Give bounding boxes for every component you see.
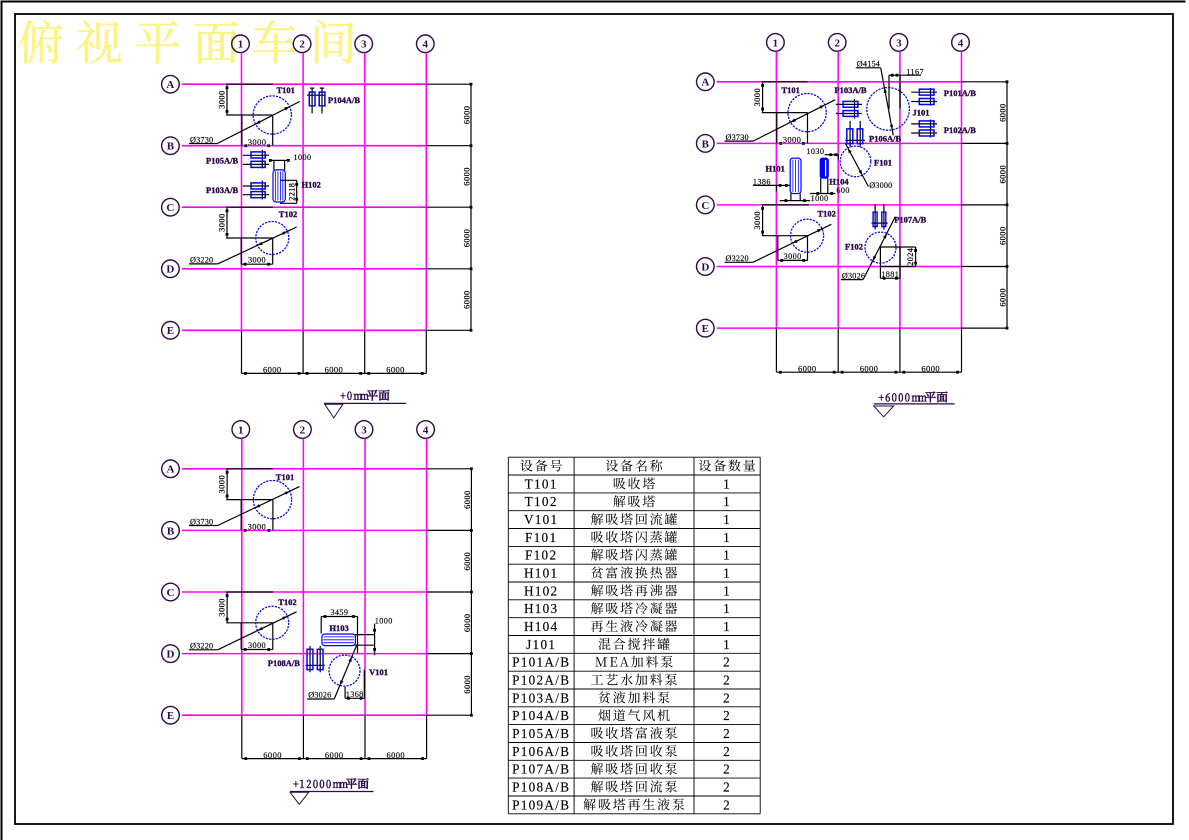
- grid row line D (plan +12000mm): [182, 653, 427, 655]
- bottom dim 3000 (T102 plan +0mm): [241, 256, 273, 266]
- grid row bubble C (plan +12000mm): [162, 583, 180, 601]
- svg-text:1: 1: [723, 512, 731, 527]
- grid row bubble A (plan +12000mm): [162, 460, 180, 478]
- heat exchanger H101 (plan +6000mm): [790, 158, 801, 193]
- svg-text:E: E: [167, 710, 174, 722]
- svg-text:C: C: [167, 587, 175, 599]
- flash tank F101 circle (plan +6000mm): [840, 146, 871, 177]
- svg-text:H103: H103: [329, 623, 348, 633]
- plan title +0mm marker triangle: [325, 404, 343, 418]
- svg-text:1: 1: [238, 39, 244, 51]
- pump P105A/B symbol (plan +0mm): [243, 150, 269, 169]
- plot box (T101 plan +0mm): [242, 115, 273, 146]
- label P104A/B (plan +0mm): [328, 95, 360, 105]
- tower circle T101 (T101 plan +12000mm): [253, 480, 291, 518]
- dimension 1000 (plan +0mm): [269, 153, 312, 170]
- diameter label Ø4154 (plan +6000mm): [856, 60, 894, 136]
- svg-text:A: A: [166, 79, 174, 91]
- svg-text:600: 600: [836, 186, 849, 195]
- svg-text:D: D: [701, 261, 709, 273]
- grid row line A (plan +12000mm): [182, 468, 427, 470]
- svg-text:P108A/B: P108A/B: [268, 658, 300, 668]
- mixer tank J101 circle (plan +6000mm): [867, 88, 910, 131]
- svg-text:2: 2: [723, 744, 731, 759]
- reflux tank V101 circle (plan +12000mm): [329, 655, 360, 686]
- right dim text 6000 (plan +0mm) 2: [461, 167, 471, 186]
- svg-text:2: 2: [299, 39, 305, 51]
- vertical dim 3000 (T102 plan +6000mm): [752, 205, 764, 236]
- svg-text:B: B: [167, 141, 175, 153]
- svg-text:1: 1: [723, 476, 731, 491]
- grid row line D (plan +0mm): [182, 268, 426, 270]
- svg-text:2: 2: [723, 690, 731, 705]
- right dim text 6000 (plan +6000mm) 2: [997, 165, 1007, 184]
- grid row bubble E (plan +12000mm): [162, 706, 180, 724]
- svg-text:2: 2: [723, 655, 731, 670]
- grid row bubble B (plan +12000mm): [162, 522, 180, 540]
- bottom dimension chain (plan +6000mm): [776, 328, 961, 373]
- grid column bubble 2 (plan +6000mm): [828, 34, 846, 52]
- grid column line 2 (plan +0mm): [302, 53, 304, 331]
- diameter label Ø3220 (plan +12000mm): [189, 612, 297, 651]
- plan title +12000mm underline: [290, 791, 373, 793]
- grid row bubble B (plan +0mm): [162, 137, 180, 155]
- grid row line E (plan +6000mm): [717, 327, 962, 329]
- center horizontal line (T101 plan +6000mm): [762, 112, 808, 114]
- svg-text:3000: 3000: [216, 90, 226, 109]
- diameter label Ø3220 (plan +0mm): [189, 227, 297, 265]
- right dim text 6000 (plan +12000mm) 1: [462, 490, 472, 509]
- vertical dim 3000 (T101 plan +6000mm): [752, 82, 764, 113]
- svg-text:P101A/B: P101A/B: [512, 655, 570, 670]
- diameter label Ø3730 (T101 plan +0mm): [189, 102, 300, 145]
- svg-text:C: C: [166, 202, 174, 214]
- svg-text:6000: 6000: [921, 363, 940, 373]
- svg-text:2: 2: [723, 797, 731, 812]
- grid row bubble B (plan +6000mm): [697, 135, 715, 153]
- condenser H104 (plan +6000mm): [820, 158, 828, 178]
- svg-text:1: 1: [773, 37, 779, 49]
- svg-text:Ø3000: Ø3000: [869, 181, 892, 190]
- center horizontal line (T102 plan +6000mm): [762, 235, 808, 237]
- grid row line C (plan +12000mm): [182, 591, 427, 593]
- plan title +0mm (text): [341, 390, 390, 401]
- label H102 (plan +0mm): [302, 179, 321, 189]
- svg-text:2: 2: [723, 779, 731, 794]
- grid column line 3 (plan +6000mm): [899, 51, 901, 328]
- svg-text:6000: 6000: [997, 288, 1007, 307]
- plot box (T102 plan +6000mm): [778, 236, 808, 261]
- grid column line 4 (plan +6000mm): [961, 51, 963, 328]
- svg-text:H104: H104: [829, 176, 849, 186]
- center horizontal line (T101 plan +0mm): [226, 114, 273, 116]
- diameter label Ø3026 (plan +6000mm): [841, 217, 895, 281]
- svg-text:P106A/B: P106A/B: [869, 134, 901, 144]
- svg-text:1: 1: [723, 548, 731, 563]
- center horizontal line (T102 plan +12000mm): [226, 622, 272, 624]
- label T101 (T101 plan +0mm): [277, 85, 295, 95]
- label V101 (plan +12000mm): [369, 667, 388, 677]
- pump P101A/B symbol (plan +6000mm): [911, 88, 937, 106]
- grid column bubble 2 (plan +12000mm): [294, 421, 312, 439]
- row C overlay (T102 plan +6000mm): [762, 204, 809, 206]
- dimension 2024 box (plan +6000mm): [880, 247, 917, 267]
- label P103A/B (plan +0mm): [206, 185, 238, 195]
- svg-text:6000: 6000: [461, 106, 471, 125]
- grid column bubble 1 (plan +6000mm): [767, 34, 785, 52]
- svg-text:H102: H102: [524, 583, 559, 598]
- grid column line 1 (plan +0mm): [241, 53, 243, 331]
- label P108A/B (plan +12000mm): [268, 658, 300, 668]
- bottom dim 3000 (T102 plan +12000mm): [241, 641, 273, 651]
- svg-text:1: 1: [723, 566, 731, 581]
- vertical dim 3000 (T101 plan +0mm): [216, 84, 228, 115]
- dimension 1000 (H103 plan +12000mm): [355, 616, 393, 655]
- dimension 1030 (plan +6000mm): [806, 147, 838, 159]
- grid row bubble C (plan +6000mm): [697, 196, 715, 214]
- tower circle T101 (T101 plan +0mm): [253, 96, 291, 134]
- tower circle T102 (plan +12000mm): [256, 606, 289, 639]
- right dimension line 6000 chain (plan +6000mm): [962, 80, 1009, 329]
- plot box (T102 plan +12000mm): [241, 623, 273, 650]
- svg-text:V101: V101: [524, 512, 559, 527]
- svg-text:B: B: [702, 138, 710, 150]
- label T101 (T101 plan +6000mm): [782, 85, 800, 95]
- grid row bubble E (plan +6000mm): [697, 319, 715, 337]
- svg-text:T102: T102: [525, 494, 558, 509]
- bottom dim text 6000 (plan +12000mm) 3: [386, 750, 405, 760]
- row overlay line (T101 plan +0mm): [226, 83, 273, 85]
- svg-text:6000: 6000: [997, 165, 1007, 184]
- bottom dim text 6000 (plan +12000mm) 1: [263, 750, 282, 760]
- grid row line D (plan +6000mm): [717, 266, 962, 268]
- bottom dim 3000 (T101 plan +6000mm): [779, 135, 805, 145]
- svg-text:D: D: [166, 264, 174, 276]
- right dim text 6000 (plan +0mm) 3: [461, 229, 471, 248]
- svg-text:2: 2: [723, 762, 731, 777]
- svg-text:A: A: [167, 464, 175, 476]
- label P102A/B (plan +6000mm): [944, 125, 976, 135]
- svg-text:H101: H101: [524, 566, 559, 581]
- svg-text:6000: 6000: [386, 750, 405, 760]
- svg-text:E: E: [167, 325, 174, 337]
- svg-text:A: A: [701, 77, 709, 89]
- svg-text:3: 3: [361, 424, 367, 436]
- right dim text 6000 (plan +6000mm) 3: [997, 226, 1007, 245]
- svg-text:P108A/B: P108A/B: [512, 779, 570, 794]
- svg-text:3000: 3000: [752, 211, 762, 230]
- equipment table text: [512, 460, 755, 813]
- grid column line 2 (plan +12000mm): [302, 439, 304, 716]
- grid column line 2 (plan +6000mm): [837, 51, 839, 328]
- label H101 (plan +6000mm): [766, 164, 785, 174]
- svg-text:3000: 3000: [216, 598, 226, 617]
- grid row line E (plan +0mm): [182, 329, 426, 331]
- bottom dim text 6000 (plan +0mm) 1: [263, 365, 282, 375]
- svg-text:1000: 1000: [811, 194, 829, 203]
- vertical dim 3000 (T102 plan +12000mm): [216, 592, 228, 623]
- grid row line B (plan +12000mm): [182, 529, 427, 531]
- svg-text:3000: 3000: [248, 137, 267, 147]
- grid column bubble 3 (plan +6000mm): [890, 34, 908, 52]
- svg-text:P107A/B: P107A/B: [894, 215, 926, 225]
- bottom dim 3000 (T101 plan +0mm): [244, 137, 270, 147]
- svg-text:3000: 3000: [784, 252, 802, 261]
- vertical dim 3000 (T101 plan +12000mm): [217, 469, 229, 500]
- label J101 (plan +6000mm): [913, 108, 930, 118]
- svg-text:6000: 6000: [461, 229, 471, 248]
- svg-text:H103: H103: [524, 601, 559, 616]
- row overlay line (T101 plan +12000mm): [226, 468, 273, 470]
- label P107A/B (plan +6000mm): [894, 215, 926, 225]
- svg-text:6000: 6000: [263, 750, 282, 760]
- label F102 (plan +6000mm): [845, 241, 863, 251]
- grid column bubble 1 (plan +0mm): [232, 35, 250, 53]
- bottom dim 3000 (T102 plan +6000mm): [778, 252, 808, 262]
- svg-text:6000: 6000: [263, 365, 282, 375]
- svg-text:6000: 6000: [461, 290, 471, 309]
- dimension 2218 (plan +0mm): [280, 180, 298, 203]
- fan P104A/B symbol (plan +0mm): [307, 88, 326, 113]
- svg-text:V101: V101: [369, 667, 388, 677]
- svg-text:1368: 1368: [346, 690, 364, 699]
- pump P106A/B symbol (plan +6000mm): [845, 121, 865, 147]
- svg-text:P107A/B: P107A/B: [512, 762, 570, 777]
- svg-text:P104A/B: P104A/B: [328, 95, 360, 105]
- dimension 3459 (plan +12000mm): [321, 608, 357, 653]
- svg-text:C: C: [701, 200, 709, 212]
- svg-text:4: 4: [423, 39, 429, 51]
- grid row bubble D (plan +6000mm): [697, 258, 715, 276]
- tower circle T102 (plan +6000mm): [791, 219, 824, 252]
- svg-text:T102: T102: [278, 597, 296, 607]
- svg-text:2: 2: [300, 424, 306, 436]
- label P103A/B (plan +6000mm): [834, 85, 866, 95]
- svg-text:6000: 6000: [462, 490, 472, 509]
- svg-text:3000: 3000: [248, 641, 266, 650]
- svg-text:6000: 6000: [325, 750, 344, 760]
- grid column line 3 (plan +12000mm): [364, 439, 366, 716]
- bottom dim text 6000 (plan +0mm) 3: [386, 365, 405, 375]
- plan title +0mm underline: [324, 402, 406, 404]
- bottom dim text 6000 (plan +6000mm) 3: [921, 363, 940, 373]
- bottom dim text 6000 (plan +6000mm) 2: [860, 363, 879, 373]
- svg-text:J101: J101: [526, 637, 556, 652]
- label T102 (plan +6000mm): [818, 209, 836, 219]
- grid column line 1 (plan +6000mm): [775, 51, 777, 328]
- grid column bubble 1 (plan +12000mm): [232, 421, 250, 439]
- svg-text:6000: 6000: [860, 363, 879, 373]
- svg-text:P101A/B: P101A/B: [944, 88, 976, 98]
- center horizontal line (T101 plan +12000mm): [226, 499, 273, 501]
- grid column bubble 3 (plan +0mm): [355, 35, 373, 53]
- grid row bubble A (plan +6000mm): [697, 73, 715, 91]
- svg-text:P103A/B: P103A/B: [206, 185, 238, 195]
- plot box (T101 plan +6000mm): [777, 113, 808, 144]
- bottom dim text 6000 (plan +6000mm) 1: [798, 363, 817, 373]
- label T101 (T101 plan +12000mm): [276, 472, 294, 482]
- svg-text:T101: T101: [782, 85, 800, 95]
- svg-text:P102A/B: P102A/B: [512, 673, 570, 688]
- right dim text 6000 (plan +12000mm) 3: [462, 613, 472, 632]
- svg-text:1881: 1881: [881, 270, 899, 279]
- label H104 (plan +6000mm): [829, 176, 849, 186]
- dimension 600 (plan +6000mm): [810, 178, 850, 195]
- equipment table grid: [508, 457, 760, 814]
- grid row line B (plan +0mm): [182, 145, 426, 147]
- svg-text:1: 1: [723, 601, 731, 616]
- svg-text:4: 4: [958, 37, 964, 49]
- grid column line 4 (plan +0mm): [425, 53, 427, 331]
- plan title +6000mm (text): [879, 392, 947, 403]
- row C overlay (T102 plan +12000mm): [226, 591, 273, 593]
- svg-text:1: 1: [238, 424, 244, 436]
- svg-text:3000: 3000: [217, 475, 227, 494]
- plot box (T101 plan +12000mm): [241, 500, 273, 531]
- dimension 1881 (plan +6000mm): [880, 267, 900, 280]
- bottom dim text 6000 (plan +0mm) 2: [325, 365, 344, 375]
- svg-text:P104A/B: P104A/B: [512, 708, 570, 723]
- center horizontal line (T102 plan +0mm): [226, 237, 273, 239]
- grid column bubble 3 (plan +12000mm): [355, 421, 373, 439]
- tower circle T101 (T101 plan +6000mm): [788, 93, 826, 131]
- svg-text:3: 3: [896, 37, 902, 49]
- grid column bubble 4 (plan +0mm): [417, 35, 435, 53]
- grid column bubble 4 (plan +12000mm): [417, 421, 435, 439]
- svg-text:6000: 6000: [461, 167, 471, 186]
- svg-text:H102: H102: [302, 179, 321, 189]
- right dim text 6000 (plan +0mm) 4: [461, 290, 471, 309]
- svg-text:H104: H104: [524, 619, 559, 634]
- vertical dim 3000 (T102 plan +0mm): [216, 207, 228, 238]
- dimension 1368 (plan +12000mm): [345, 670, 364, 700]
- svg-text:3000: 3000: [752, 88, 762, 107]
- drawing title text (yellow): [19, 20, 354, 64]
- pump P107A/B symbol (plan +6000mm): [871, 204, 887, 229]
- svg-text:T102: T102: [279, 209, 297, 219]
- pump P108A/B symbol (plan +12000mm): [306, 646, 325, 672]
- bottom dim 3000 (T101 plan +12000mm): [244, 522, 270, 532]
- svg-text:J101: J101: [913, 108, 930, 118]
- svg-text:2: 2: [723, 708, 731, 723]
- svg-text:T101: T101: [276, 472, 294, 482]
- pump P102A/B symbol (plan +6000mm): [911, 120, 937, 138]
- label P105A/B (plan +0mm): [206, 156, 238, 166]
- svg-text:P105A/B: P105A/B: [206, 156, 238, 166]
- diameter label Ø3730 (T101 plan +12000mm): [189, 487, 300, 527]
- svg-text:2218: 2218: [288, 183, 297, 201]
- grid column bubble 2 (plan +0mm): [293, 35, 311, 53]
- grid row line A (plan +0mm): [182, 83, 426, 85]
- svg-text:T102: T102: [818, 209, 836, 219]
- svg-text:1: 1: [723, 619, 731, 634]
- right dimension line 6000 chain (plan +0mm): [426, 83, 472, 332]
- right dim text 6000 (plan +6000mm) 1: [997, 103, 1007, 122]
- svg-text:6000: 6000: [798, 363, 817, 373]
- svg-text:1167: 1167: [906, 68, 924, 77]
- heat exchanger H102 (plan +0mm): [273, 170, 285, 202]
- svg-text:Ø3220: Ø3220: [726, 254, 749, 263]
- right dim text 6000 (plan +0mm) 1: [461, 106, 471, 125]
- right dim text 6000 (plan +12000mm) 2: [462, 552, 472, 571]
- right dimension line 6000 chain (plan +12000mm): [427, 467, 473, 716]
- bottom dimension chain (plan +0mm): [242, 330, 427, 375]
- pump P103A/B symbol (plan +6000mm): [836, 99, 862, 119]
- condenser H103 (plan +12000mm): [322, 634, 356, 646]
- label P101A/B (plan +6000mm): [944, 88, 976, 98]
- svg-text:4: 4: [423, 424, 429, 436]
- plan title +6000mm marker triangle: [874, 406, 894, 417]
- svg-text:6000: 6000: [462, 552, 472, 571]
- svg-text:6000: 6000: [997, 103, 1007, 122]
- grid row bubble C (plan +0mm): [162, 198, 180, 216]
- svg-text:3: 3: [361, 39, 367, 51]
- svg-text:1: 1: [723, 494, 731, 509]
- svg-text:2: 2: [723, 673, 731, 688]
- svg-text:2: 2: [723, 726, 731, 741]
- bottom dimension chain (plan +12000mm): [242, 715, 427, 760]
- grid column line 3 (plan +0mm): [364, 53, 366, 331]
- svg-text:P106A/B: P106A/B: [512, 744, 570, 759]
- diameter label Ø3000 (plan +6000mm): [845, 143, 892, 190]
- svg-text:3000: 3000: [248, 256, 266, 265]
- grid row line C (plan +6000mm): [717, 204, 962, 206]
- svg-text:Ø3026: Ø3026: [308, 691, 331, 700]
- right dim text 6000 (plan +6000mm) 4: [997, 288, 1007, 307]
- label P106A/B (plan +6000mm): [869, 134, 901, 144]
- svg-text:P109A/B: P109A/B: [512, 797, 570, 812]
- grid column bubble 4 (plan +6000mm): [952, 34, 970, 52]
- dimension 1167 (plan +6000mm): [889, 68, 924, 109]
- diameter label Ø3220 (plan +6000mm): [725, 224, 832, 263]
- label H103 (plan +12000mm): [329, 623, 348, 633]
- row overlay line (T101 plan +6000mm): [762, 81, 808, 83]
- grid row bubble E (plan +0mm): [162, 322, 180, 340]
- grid row line A (plan +6000mm): [717, 81, 962, 83]
- svg-text:3000: 3000: [216, 213, 226, 232]
- svg-text:6000: 6000: [325, 365, 344, 375]
- svg-text:2: 2: [834, 37, 840, 49]
- grid row bubble D (plan +12000mm): [162, 645, 180, 663]
- svg-text:3459: 3459: [330, 608, 348, 617]
- svg-text:6000: 6000: [462, 675, 472, 694]
- svg-text:B: B: [167, 525, 175, 537]
- pump P103A/B symbol (plan +0mm): [243, 181, 269, 200]
- svg-text:2024: 2024: [906, 248, 915, 266]
- svg-text:1030: 1030: [806, 147, 824, 156]
- dimension 1000 (H101 plan +6000mm): [780, 194, 829, 203]
- svg-text:F102: F102: [525, 548, 557, 563]
- grid row line B (plan +6000mm): [717, 142, 962, 144]
- svg-text:T101: T101: [277, 85, 295, 95]
- svg-text:Ø3220: Ø3220: [190, 256, 213, 265]
- plan title +12000mm marker triangle: [290, 792, 309, 804]
- svg-text:F102: F102: [845, 241, 863, 251]
- grid row line C (plan +0mm): [182, 206, 426, 208]
- svg-text:3000: 3000: [248, 522, 267, 532]
- svg-text:D: D: [167, 649, 175, 661]
- svg-text:H101: H101: [766, 164, 785, 174]
- svg-text:6000: 6000: [386, 365, 405, 375]
- plot box (T102 plan +0mm): [241, 238, 273, 264]
- grid column line 1 (plan +12000mm): [241, 439, 243, 716]
- svg-text:1000: 1000: [375, 616, 393, 625]
- label T102 (plan +12000mm): [278, 597, 296, 607]
- row C overlay (T102 plan +0mm): [226, 206, 273, 208]
- svg-text:F101: F101: [525, 530, 557, 545]
- grid row bubble A (plan +0mm): [162, 75, 180, 93]
- bottom dim text 6000 (plan +12000mm) 2: [325, 750, 344, 760]
